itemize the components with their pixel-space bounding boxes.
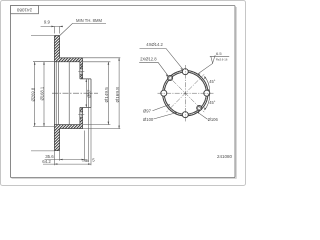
svg-text:Ø168.1: Ø168.1: [40, 86, 45, 100]
svg-text:241080: 241080: [217, 154, 233, 159]
svg-text:241080: 241080: [16, 8, 32, 13]
svg-text:Ø149.5: Ø149.5: [104, 87, 109, 103]
outer circle 106: [163, 71, 208, 116]
ring outline: [54, 36, 59, 151]
hatch: ring+hat top: [54, 36, 82, 62]
dim 57 (bore): [85, 79, 87, 108]
flange wall verticals: [80, 62, 83, 125]
drawing frame: [11, 6, 236, 178]
dim 169.8: [60, 58, 121, 129]
inner vertical line: [68, 62, 70, 125]
bolt holes 14.2: [182, 69, 188, 75]
svg-text:MIN TH. 8MM: MIN TH. 8MM: [76, 18, 102, 23]
center lines: [158, 65, 214, 121]
drawing frame shadow: [12, 7, 237, 178]
bolt hole edges in section: [80, 69, 83, 118]
hatch: ring+hat bottom: [54, 125, 82, 151]
hat wall outline bottom: [54, 125, 82, 129]
svg-text:4XØ14.2: 4XØ14.2: [146, 42, 163, 47]
title box top-left: [11, 6, 39, 14]
arc arrowheads: [204, 76, 206, 79]
svg-text:6.5: 6.5: [216, 51, 222, 56]
bore chamfer line: [88, 79, 90, 108]
dim 168.1 ext + line: [33, 62, 55, 127]
svg-text:9.9: 9.9: [44, 19, 51, 24]
svg-text:45°: 45°: [209, 100, 216, 105]
dim 9.9: [41, 26, 63, 33]
background card: [0, 0, 246, 186]
dim 149.5: [83, 62, 111, 125]
svg-text:Ø269.8: Ø269.8: [30, 87, 35, 101]
dim 5: [82, 108, 89, 163]
inner circle 97: [164, 72, 206, 114]
holes 12 (threaded look): [168, 76, 173, 81]
leaders right view: [139, 49, 229, 120]
45 deg arcs: [205, 76, 210, 91]
svg-text:Ra3.6-16: Ra3.6-16: [216, 58, 228, 62]
svg-text:45°: 45°: [209, 79, 216, 84]
leader MIN TH: [60, 23, 106, 35]
bolt circle (dash-dot): [164, 72, 207, 115]
dim 64.2: [43, 108, 91, 166]
centerline: [52, 92, 98, 94]
dim 35.6: [45, 131, 88, 161]
hub boss: [80, 79, 91, 108]
svg-text:Ø169.8: Ø169.8: [115, 87, 120, 103]
svg-text:Ø57: Ø57: [87, 89, 92, 98]
surface finish symbol: [210, 55, 229, 63]
svg-text:2XØ12.8: 2XØ12.8: [140, 57, 157, 62]
svg-text:Ø100: Ø100: [143, 117, 154, 122]
svg-text:64.2: 64.2: [42, 159, 51, 164]
hatch: flange wall segments: [80, 62, 83, 69]
arrowheads: [34, 26, 120, 165]
svg-text:Ø106: Ø106: [208, 117, 219, 122]
svg-text:Ø97: Ø97: [143, 109, 152, 114]
dim 269.8: [31, 36, 54, 151]
bolt hole centerlines: [80, 65, 82, 122]
hat wall outline top: [54, 58, 82, 62]
